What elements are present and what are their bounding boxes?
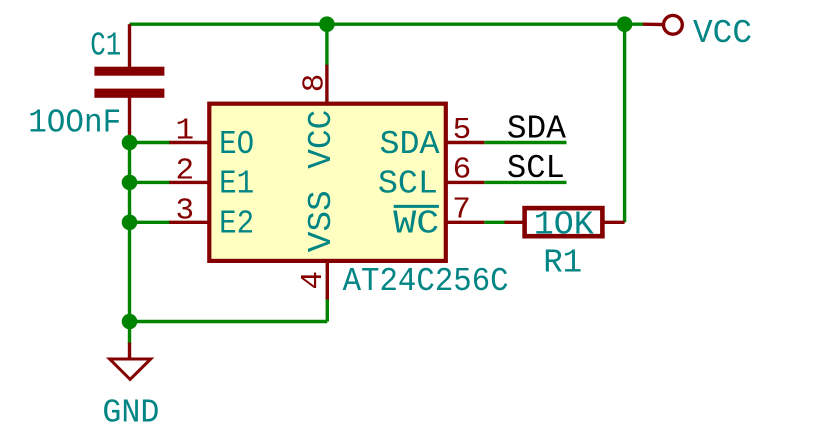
resistor R1 lead left bbox=[505, 221, 525, 224]
wire WC to R1 bbox=[484, 221, 505, 224]
op-amp U1 body AT24C256C bbox=[209, 104, 445, 261]
junction C1 E0 bbox=[122, 135, 138, 151]
svg-text:1: 1 bbox=[175, 114, 194, 149]
junction E1 bbox=[122, 175, 138, 191]
svg-text:7: 7 bbox=[452, 193, 471, 228]
svg-text:WC: WC bbox=[393, 205, 439, 242]
svg-text:1OOnF: 1OOnF bbox=[28, 104, 121, 141]
wire GND lead upper bbox=[128, 322, 131, 344]
svg-text:SDA: SDA bbox=[380, 126, 440, 163]
wire vertical pin 8 drop bbox=[325, 24, 328, 66]
svg-text:R1: R1 bbox=[543, 245, 582, 282]
pin 1 stub E0 bbox=[169, 141, 209, 144]
svg-text:EO: EO bbox=[219, 126, 254, 163]
capacitor C1 bottom plate bbox=[94, 89, 164, 98]
wire SCL bbox=[484, 181, 566, 184]
pin 2 stub E1 bbox=[169, 181, 209, 184]
wire vertical pin 4 riser bbox=[326, 297, 329, 322]
resistor R1 body bbox=[525, 208, 603, 236]
junction E2 bbox=[122, 215, 138, 231]
junction GND corner bbox=[122, 314, 138, 330]
power VCC pin stub bbox=[643, 23, 664, 27]
svg-text:E1: E1 bbox=[219, 166, 254, 203]
svg-text:C1: C1 bbox=[90, 28, 121, 65]
svg-text:8: 8 bbox=[298, 74, 333, 93]
svg-text:SDA: SDA bbox=[507, 110, 566, 147]
power GND triangle bbox=[110, 359, 151, 379]
wire top horizontal VCC rail bbox=[130, 23, 644, 26]
pin 5 stub SDA bbox=[446, 141, 485, 144]
svg-text:VCC: VCC bbox=[303, 110, 340, 169]
wire E1 bbox=[130, 181, 171, 184]
wire E2 bbox=[130, 221, 171, 224]
svg-text:SCL: SCL bbox=[507, 150, 565, 187]
pin 8 stub VCC bbox=[325, 65, 328, 104]
junction VCC drop top rail bbox=[617, 16, 633, 32]
power VCC circle bbox=[664, 15, 683, 34]
wire left vertical bus bbox=[128, 143, 131, 322]
power GND lead bbox=[128, 343, 131, 359]
wire bottom horizontal to pin 4 bbox=[130, 320, 328, 323]
pin name WC overline bbox=[394, 205, 439, 208]
svg-text:GND: GND bbox=[102, 395, 159, 432]
svg-text:SCL: SCL bbox=[378, 166, 438, 203]
pin 7 stub WC bbox=[446, 221, 485, 224]
pin 6 stub SCL bbox=[446, 181, 485, 184]
svg-text:VSS: VSS bbox=[303, 190, 340, 252]
capacitor C1 top plate bbox=[94, 67, 164, 76]
svg-text:6: 6 bbox=[453, 153, 472, 188]
capacitor C1 lead top bbox=[128, 24, 131, 67]
wire E0 bbox=[130, 141, 171, 144]
svg-text:E2: E2 bbox=[219, 205, 254, 242]
svg-text:5: 5 bbox=[453, 113, 472, 148]
wire VCC vertical drop to R1 bbox=[623, 24, 626, 222]
svg-text:VCC: VCC bbox=[693, 15, 752, 52]
capacitor C1 lead bottom bbox=[128, 98, 131, 143]
resistor R1 lead right bbox=[602, 221, 624, 224]
pin 4 stub VSS bbox=[326, 261, 329, 300]
wire SDA bbox=[484, 141, 566, 144]
svg-text:3: 3 bbox=[175, 193, 194, 228]
svg-text:AT24C256C: AT24C256C bbox=[343, 263, 509, 300]
junction pin8 top rail bbox=[319, 16, 335, 32]
svg-text:4: 4 bbox=[296, 271, 331, 290]
pin 3 stub E2 bbox=[169, 221, 209, 224]
svg-text:2: 2 bbox=[175, 153, 194, 188]
svg-text:1OK: 1OK bbox=[534, 207, 594, 244]
